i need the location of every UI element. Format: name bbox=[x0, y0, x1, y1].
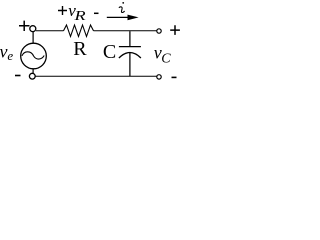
capacitor C bbox=[119, 31, 141, 76]
voltage source Ve bbox=[21, 43, 47, 69]
plus sign top-right bbox=[170, 25, 180, 35]
label vC bbox=[154, 43, 171, 67]
resistor R bbox=[64, 25, 94, 37]
label +vR- above resistor bbox=[58, 1, 99, 23]
plus sign top-left bbox=[19, 21, 30, 31]
node top-left terminal bbox=[30, 26, 36, 32]
svg-text:C: C bbox=[161, 52, 171, 67]
wire source bottom stub bbox=[32, 69, 34, 74]
minus sign bottom-right bbox=[172, 76, 177, 78]
svg-text:R: R bbox=[73, 38, 87, 60]
node bottom-right terminal bbox=[157, 75, 161, 79]
wire bottom segment bbox=[36, 75, 157, 77]
node top-right terminal bbox=[157, 29, 161, 33]
wire top right segment bbox=[94, 30, 157, 32]
current arrow i bbox=[107, 2, 139, 20]
svg-text:R: R bbox=[73, 8, 85, 24]
svg-text:C: C bbox=[103, 41, 116, 63]
wire top left segment bbox=[36, 30, 64, 32]
wire source top stub bbox=[32, 32, 34, 44]
label ve bbox=[0, 41, 13, 63]
svg-text:e: e bbox=[7, 48, 13, 63]
minus sign bottom-left bbox=[15, 75, 21, 77]
node bottom-left terminal bbox=[29, 73, 35, 79]
svg-text:v: v bbox=[0, 41, 8, 61]
